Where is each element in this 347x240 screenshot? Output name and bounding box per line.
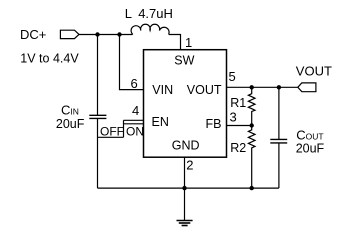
- wire VOUT: [227, 86, 298, 88]
- svg-text:4: 4: [132, 103, 139, 118]
- svg-text:EN: EN: [152, 115, 169, 129]
- svg-text:6: 6: [131, 76, 138, 91]
- svg-text:OFF: OFF: [100, 125, 124, 139]
- svg-text:DC+: DC+: [20, 27, 46, 42]
- svg-text:L: L: [125, 6, 132, 21]
- capacitor COUT: [270, 87, 324, 188]
- wire input top: [79, 34, 133, 36]
- svg-text:20uF: 20uF: [296, 142, 325, 156]
- svg-text:2: 2: [186, 158, 193, 173]
- svg-text:1V to 4.4V: 1V to 4.4V: [20, 51, 79, 65]
- svg-text:R2: R2: [230, 141, 246, 155]
- node input/VIN junction: [117, 32, 121, 36]
- svg-text:FB: FB: [206, 117, 222, 131]
- node FB/R1/R2 junction: [250, 123, 254, 127]
- svg-text:VIN: VIN: [152, 83, 173, 97]
- op IC U1 box: [144, 50, 227, 158]
- node rail/GND junction: [182, 186, 186, 190]
- switch EN OFF/ON: [98, 120, 145, 138]
- svg-text:R1: R1: [230, 96, 246, 110]
- connector DC+: [20, 27, 79, 65]
- resistor R2: [230, 126, 255, 189]
- node input/CIN junction: [95, 32, 99, 36]
- node VOUT/COUT junction: [277, 85, 281, 89]
- capacitor CIN: [56, 102, 107, 130]
- wire inductor to SW pin: [169, 35, 181, 50]
- svg-text:1: 1: [185, 35, 192, 50]
- resistor R1: [230, 87, 255, 125]
- svg-text:20uF: 20uF: [56, 117, 85, 131]
- wire ground rail: [98, 187, 279, 189]
- svg-text:VOUT: VOUT: [187, 83, 222, 97]
- wire input cap upper: [97, 35, 99, 116]
- svg-text:4.7uH: 4.7uH: [138, 6, 173, 21]
- svg-text:SW: SW: [174, 54, 194, 68]
- svg-text:3: 3: [230, 109, 237, 124]
- node VOUT/R1 junction: [250, 85, 254, 89]
- wire FB stub: [227, 125, 252, 127]
- node rail/R2 junction: [250, 186, 254, 190]
- svg-text:ON: ON: [126, 125, 144, 139]
- wire VIN branch: [120, 35, 144, 90]
- connector VOUT: [296, 64, 332, 92]
- ground: [177, 188, 193, 225]
- svg-text:5: 5: [229, 69, 236, 84]
- wire GND pin drop: [184, 157, 186, 188]
- svg-text:GND: GND: [172, 138, 200, 152]
- svg-text:VOUT: VOUT: [296, 64, 332, 79]
- wire input cap lower to rail: [97, 118, 99, 188]
- inductor L 4.7uH: [125, 6, 173, 35]
